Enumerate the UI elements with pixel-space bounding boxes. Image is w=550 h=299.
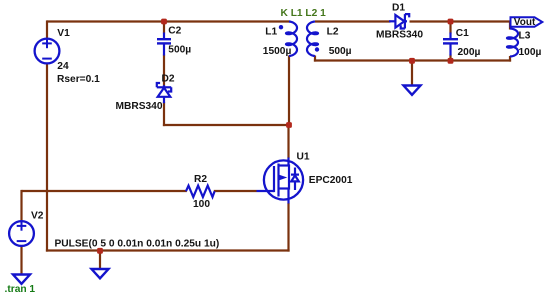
wire C2 bottom to D2 top [163, 55, 165, 87]
svg-text:L1: L1 [265, 27, 277, 38]
voltage source V1 [35, 39, 60, 64]
svg-text:MBRS340: MBRS340 [376, 30, 423, 41]
svg-text:D2: D2 [162, 74, 175, 85]
wire D1 cathode to Vout corner [410, 20, 512, 22]
wire bottom right rail [314, 59, 511, 61]
svg-text:V2: V2 [31, 210, 44, 221]
diode D2 MBRS340 [157, 83, 171, 103]
wire D2 bottom to mid rail [163, 102, 165, 126]
wire V2 top lead [20, 190, 22, 222]
wire L2 bottom lead [314, 56, 316, 62]
svg-text:V1: V1 [57, 28, 70, 39]
svg-text:L2: L2 [327, 27, 339, 38]
svg-text:500µ: 500µ [168, 44, 191, 55]
wire C1 bottom lead [449, 55, 451, 62]
capacitor C2 [157, 33, 171, 56]
resistor R2 [186, 186, 215, 197]
svg-text:100µ: 100µ [519, 47, 542, 58]
svg-text:Vout: Vout [514, 17, 536, 28]
wire mid rail D2 to drain junction [163, 124, 290, 126]
wire L1 bottom to drain junction [288, 56, 290, 127]
wire bottom rail [46, 249, 290, 251]
junction C2 top [161, 19, 167, 25]
svg-text:EPC2001: EPC2001 [309, 175, 353, 186]
wire right ground stem [411, 61, 413, 87]
svg-text:L3: L3 [519, 31, 531, 42]
junction C1 bottom [448, 58, 454, 64]
svg-text:MBRS340: MBRS340 [116, 101, 163, 112]
svg-text:R2: R2 [194, 174, 207, 185]
svg-text:Rser=0.1: Rser=0.1 [57, 74, 100, 85]
wire top rail V1 to L1 [47, 20, 290, 22]
ground right rail [404, 86, 421, 95]
svg-text:K L1 L2 1: K L1 L2 1 [281, 8, 327, 19]
inductor L2 [307, 22, 318, 57]
wire V1 top lead [46, 20, 48, 39]
svg-text:C1: C1 [456, 28, 469, 39]
voltage source V2 [9, 221, 34, 246]
svg-text:1500µ: 1500µ [263, 46, 292, 57]
wire Vout corner to L3 top [509, 22, 511, 30]
inductor L3 [507, 29, 518, 57]
svg-text:100: 100 [193, 199, 210, 210]
wire MOSFET source to bottom rail [287, 203, 289, 252]
junction bottom ground [97, 248, 103, 254]
diode D1 MBRS340 [389, 14, 409, 28]
net flag Vout [511, 17, 543, 26]
svg-text:D1: D1 [392, 3, 405, 14]
junction right ground [409, 58, 415, 64]
svg-text:PULSE(0 5 0 0.01n 0.01n 0.25u: PULSE(0 5 0 0.01n 0.01n 0.25u 1u) [55, 238, 220, 249]
svg-text:200µ: 200µ [458, 47, 481, 58]
capacitor C1 [443, 33, 458, 56]
junction C1 top [448, 19, 454, 25]
transistor U1 EPC2001 [257, 158, 304, 204]
wire drain junction to MOSFET drain [287, 125, 289, 158]
wire L3 bottom lead [509, 56, 511, 62]
svg-text:24: 24 [57, 61, 69, 72]
wire gate run right segment [214, 190, 257, 192]
wire center ground stem [99, 251, 101, 270]
wire V2 bottom lead [20, 246, 22, 276]
svg-text:U1: U1 [297, 152, 310, 163]
L1 phasing dot [279, 25, 283, 29]
inductor L1 [286, 22, 297, 57]
wire L2 top to D1 anode [315, 20, 391, 22]
wire C2 top lead [163, 22, 165, 34]
junction drain node [286, 122, 292, 128]
L2 phasing dot [315, 47, 319, 51]
ground below V2 [13, 275, 30, 284]
wire C1 top lead [449, 22, 451, 34]
wire V1 bottom lead [46, 63, 48, 252]
wire gate run left segment [22, 190, 187, 192]
ground center bottom [92, 269, 109, 278]
svg-text:.tran 1: .tran 1 [5, 284, 36, 295]
svg-text:C2: C2 [168, 26, 181, 37]
svg-text:500µ: 500µ [329, 46, 352, 57]
